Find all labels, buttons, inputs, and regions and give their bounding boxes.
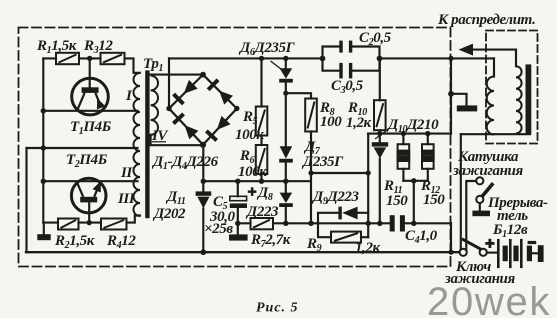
svg-text:С20,5: С20,5 <box>359 30 392 48</box>
node C5 R7 junction <box>235 221 240 226</box>
svg-text:К распределит.: К распределит. <box>437 12 535 28</box>
resistor R11 <box>398 144 410 169</box>
resistor R2 <box>58 219 79 230</box>
breaker contact circles and lever <box>476 177 493 203</box>
wire R1 R3 row links <box>43 58 140 72</box>
rectifier bridge D1-D4 diamond <box>169 75 237 145</box>
node C2C3 left junction <box>320 56 326 62</box>
node R8 jog junction <box>308 170 313 175</box>
node R1-R3 base T1 junction <box>87 56 92 61</box>
diode D10 <box>372 142 388 158</box>
ground symbol near coil <box>457 105 477 111</box>
capacitor C4 <box>390 215 405 231</box>
svg-text:Рис. 5: Рис. 5 <box>256 301 299 316</box>
wire coil bottom <box>461 133 530 135</box>
wire T1 row y110 <box>43 110 137 112</box>
svg-text:III: III <box>117 191 136 207</box>
wire left vertical x43 <box>42 58 44 222</box>
resistor R9 <box>331 232 361 243</box>
node C4 drop junction <box>411 221 416 226</box>
wire top bus y58 <box>169 57 494 59</box>
winding IV right <box>151 76 158 135</box>
wire bridge bottom drop to bus <box>202 145 204 252</box>
wire R5 R6 column <box>260 58 262 181</box>
svg-text:II: II <box>120 165 133 181</box>
ignition coil core <box>526 64 532 134</box>
wire winding IV bottom to bridge bottom vertex <box>151 135 203 145</box>
resistor R8 <box>305 99 317 132</box>
chassis bar under C5 <box>229 234 248 240</box>
label battery minus <box>528 241 537 244</box>
node bridge right vertex <box>234 106 239 111</box>
resistor R10 <box>374 100 386 130</box>
wire winding IV top to bridge top vertex <box>151 74 203 76</box>
node R11 R12 bottom junction <box>411 178 416 183</box>
diode D4 bottom-right <box>212 116 230 134</box>
wire C5 column <box>237 181 239 234</box>
diode D11 <box>196 191 212 208</box>
wire bus left riser <box>25 148 27 252</box>
svg-text:R21,5к: R21,5к <box>54 233 95 251</box>
battery B1 plates <box>497 239 544 268</box>
svg-text:100: 100 <box>320 114 342 130</box>
resistor R12 <box>422 144 434 169</box>
svg-text:Д10Д210: Д10Д210 <box>386 117 439 135</box>
transformer Tr1 <box>134 73 159 216</box>
wire ground stem left <box>43 223 45 235</box>
resistor R5 <box>256 107 267 136</box>
wire coil primary riser <box>493 58 495 76</box>
svg-text:150: 150 <box>386 193 408 209</box>
wire T2 top row y148 <box>27 147 138 149</box>
node R8 jog top junction <box>283 91 288 96</box>
capacitor C2 <box>339 41 352 53</box>
wire R2 R4 row <box>43 222 101 224</box>
wire mid rail y181 <box>203 180 311 182</box>
svg-text:20wek: 20wek <box>427 280 551 318</box>
label C5 plus and D8 <box>248 187 257 196</box>
svg-text:R72,7к: R72,7к <box>250 232 291 250</box>
winding I II III left <box>134 73 141 216</box>
wire T2 row y181 <box>43 180 137 182</box>
svg-text:Т2П4Б: Т2П4Б <box>66 152 108 170</box>
svg-text:Д9Д223: Д9Д223 <box>311 189 360 207</box>
node D9R9 right junction <box>366 221 371 226</box>
diode D7 <box>279 146 293 162</box>
breaker ground bar <box>472 211 490 217</box>
wire C2C3 parallel block frame <box>323 47 380 71</box>
node D10 top junction <box>377 131 382 136</box>
svg-text:Б112в: Б112в <box>492 222 528 240</box>
node D9R9 left junction <box>308 221 313 226</box>
svg-text:1,2к: 1,2к <box>346 115 372 131</box>
node D6 top junction <box>283 56 288 61</box>
diode D8 <box>279 193 293 207</box>
wire bottom bus y252 <box>26 251 460 253</box>
svg-text:Д223: Д223 <box>245 204 279 220</box>
wire R12 stems <box>427 134 429 181</box>
capacitor C5 <box>230 196 247 208</box>
wire battery tail <box>532 252 538 254</box>
svg-text:Д202: Д202 <box>152 206 186 222</box>
transformer core <box>145 70 149 218</box>
node R6 bottom junction <box>259 179 264 184</box>
diode D6 <box>279 68 293 82</box>
diode D9 <box>338 207 357 220</box>
wire breaker ground stem <box>479 203 481 210</box>
node T1 row left junction <box>41 108 46 113</box>
wire R10 D10 column <box>379 58 381 223</box>
wire R11 R12 bottom link <box>403 180 427 182</box>
svg-text:150: 150 <box>423 192 445 208</box>
wire coil riser to key <box>460 134 462 249</box>
svg-text:С41,0: С41,0 <box>405 228 438 246</box>
wire y133 rail <box>368 133 451 135</box>
svg-text:1,2к: 1,2к <box>355 240 381 256</box>
svg-text:зажигания: зажигания <box>452 163 523 179</box>
ignition key contacts and lever <box>460 239 487 256</box>
node R5 top junction <box>259 56 264 61</box>
resistor R4 <box>101 219 127 230</box>
resistor R6 <box>256 145 267 174</box>
node D10 bottom junction <box>377 221 382 226</box>
node D7 D8 junction <box>283 179 288 184</box>
svg-text:100к: 100к <box>235 127 264 143</box>
diode D2 top-right <box>207 78 220 91</box>
label battery plus <box>485 239 494 248</box>
node top rail right junction <box>448 56 453 61</box>
svg-text:R11,5к: R11,5к <box>36 38 77 56</box>
coil primary winding <box>487 77 494 135</box>
svg-text:С30,5: С30,5 <box>331 78 364 96</box>
ignition coil windings <box>487 66 522 134</box>
wire winding III bottom to R4 <box>127 216 141 223</box>
resistor R3 <box>101 53 125 64</box>
leader line D10 <box>375 128 390 139</box>
svg-text:R412: R412 <box>106 233 136 251</box>
arrow to distributor <box>459 44 474 56</box>
node R12 top junction <box>425 131 430 136</box>
resistor R7 <box>251 218 274 229</box>
wire bridge left vertex riser <box>168 58 170 108</box>
wire mid rail y223 <box>238 222 451 224</box>
capacitor C3 <box>339 63 352 79</box>
wire drop x451 to key <box>450 223 452 251</box>
ignition coil dashed border <box>486 31 538 144</box>
wire T2 base stem <box>88 203 90 223</box>
node R11 top junction <box>401 131 406 136</box>
node bridge drop bus junction <box>200 249 206 255</box>
resistor R1 <box>56 53 79 64</box>
wire ground link at x451 <box>451 94 467 106</box>
node D8 bottom junction <box>283 221 288 226</box>
svg-text:Д6Д235Г: Д6Д235Г <box>238 40 296 58</box>
wire riser x368 <box>367 134 369 238</box>
wire D6 D7 D8 column <box>285 58 287 223</box>
node T2 row left junction <box>41 179 46 184</box>
transistor T1 <box>72 78 109 115</box>
node riser x368 jog junction <box>366 170 371 175</box>
node T2 base junction <box>87 220 92 225</box>
svg-text:100к: 100к <box>238 164 267 180</box>
node winding II tap junction <box>41 145 46 150</box>
svg-text:R312: R312 <box>83 38 113 56</box>
node ground tap junction <box>448 91 454 97</box>
diode D3 bottom-left <box>172 112 185 124</box>
wire distributor arrow line <box>470 50 516 67</box>
leader line D6 <box>271 61 282 69</box>
svg-text:×25в: ×25в <box>204 221 233 237</box>
node mid rail left junction <box>201 179 206 184</box>
diode D1 top-left <box>179 80 197 98</box>
wire jog y173 <box>311 172 368 174</box>
wire T1 base stem <box>89 58 91 87</box>
node C5 top junction <box>235 179 240 184</box>
wire key to battery <box>487 252 497 254</box>
node C2C3 right junction <box>377 56 383 62</box>
node supply drop bus junction <box>448 250 453 255</box>
svg-text:Д235Г: Д235Г <box>301 154 344 170</box>
coil secondary winding <box>516 66 522 133</box>
node bridge bottom vertex <box>200 142 206 148</box>
wire right vertical x451 <box>450 58 452 133</box>
wire R11 stems <box>402 134 404 181</box>
node bridge top vertex <box>200 72 206 78</box>
chassis bar left under R2 <box>37 234 50 240</box>
wire R8 column <box>286 93 311 223</box>
wire breaker link <box>466 181 476 249</box>
svg-text:Т1П4Б: Т1П4Б <box>70 119 112 137</box>
node bridge left vertex <box>166 106 171 111</box>
wire D9 R9 parallel frame <box>318 213 368 237</box>
wire drop x413 <box>413 181 415 224</box>
transistor T2 <box>71 178 106 213</box>
main unit dashed border <box>19 28 451 267</box>
